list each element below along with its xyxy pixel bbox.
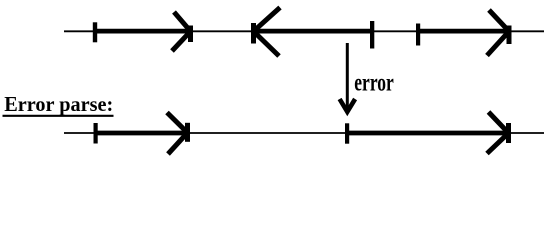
svg-text:error: error — [354, 68, 394, 96]
svg-text:Error parse:: Error parse: — [4, 94, 113, 116]
